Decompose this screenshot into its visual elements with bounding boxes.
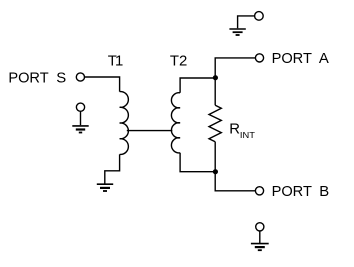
wire T2 bottom to rail (180, 153, 215, 172)
svg-text:INT: INT (240, 130, 255, 140)
wire ground stub (top right) (238, 16, 255, 28)
ground (top right) (229, 29, 245, 35)
wire PORT S to T1 top (85, 77, 120, 92)
wire ground stub (below PORT S) (80, 111, 82, 125)
node ground terminal circle (top right) (255, 12, 264, 21)
svg-text:S: S (56, 71, 66, 87)
ground (bottom right) (251, 244, 269, 251)
svg-text:PORT: PORT (272, 184, 312, 200)
svg-text:B: B (319, 184, 329, 200)
wire T2 top to rail (180, 78, 215, 93)
ground (T1 bottom) (97, 184, 113, 191)
transformer T2 winding (4 loops) (171, 93, 180, 153)
svg-text:1: 1 (115, 53, 123, 69)
node ground terminal circle (bottom right) (256, 223, 264, 231)
wire T1 bottom to ground (105, 154, 120, 183)
node PORT B terminal circle (255, 187, 263, 195)
node ground terminal circle (below PORT S) (76, 103, 84, 111)
svg-text:PORT: PORT (8, 71, 48, 87)
ground (below PORT S) (72, 126, 88, 133)
wire ground stub (bottom right) (259, 231, 261, 244)
wire PORT A from rail (215, 58, 255, 105)
resistor R_INT zigzag (209, 105, 221, 142)
node PORT A terminal circle (255, 54, 263, 62)
wire T1 tap to T2 (127, 130, 173, 132)
node PORT S terminal circle (76, 73, 84, 81)
transformer T1 winding (4 loops, tap to T2) (120, 92, 129, 155)
node junction dot top (T2/rail) (213, 75, 218, 80)
svg-text:R: R (229, 122, 240, 138)
svg-text:PORT: PORT (272, 51, 312, 67)
node junction dot bottom (T2/rail) (213, 169, 218, 174)
svg-text:T2: T2 (170, 53, 187, 69)
svg-text:A: A (319, 51, 329, 67)
wire rail resistor to PORT B corner (215, 142, 255, 191)
